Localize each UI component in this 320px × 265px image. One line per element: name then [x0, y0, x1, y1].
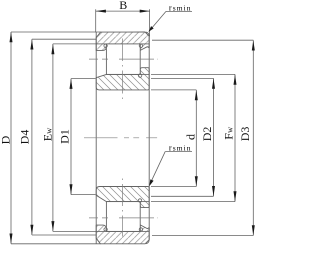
- outer ring bottom section: [96, 225, 149, 244]
- extension line D3 bottom: [152, 235, 253, 237]
- dimension line D1: [70, 79, 73, 195]
- extension line D4 bottom: [32, 234, 96, 236]
- extension line d top: [151, 89, 196, 91]
- svg-text:rsmin: rsmin: [169, 143, 192, 153]
- extension line D bottom: [11, 243, 100, 245]
- svg-text:B: B: [119, 0, 127, 12]
- svg-text:D: D: [0, 135, 13, 144]
- extension line Ew bottom: [53, 230, 96, 232]
- wire left face line of rings: [95, 32, 97, 244]
- relief groove top-left: [104, 44, 107, 47]
- chamfer arc bottom-right: [146, 240, 149, 244]
- dimension line D3: [252, 40, 255, 235]
- relief groove bottom-left: [104, 228, 107, 231]
- dimension line B: [96, 10, 150, 13]
- relief groove upper-right of bottom roller: [138, 199, 141, 202]
- leader rsmin mid: [150, 152, 192, 184]
- dimension line Fw: [234, 74, 237, 201]
- dimension line D4: [30, 39, 33, 235]
- svg-text:D2: D2: [200, 127, 214, 142]
- arrow rsmin top: [148, 26, 153, 32]
- extension line D top (OD extended left): [11, 31, 101, 33]
- dimension line Ew: [51, 44, 54, 232]
- centerline horizontal of bottom roller: [89, 217, 158, 219]
- svg-text:D4: D4: [17, 130, 31, 145]
- extension line Fw bottom: [151, 201, 235, 203]
- outer ring top section: [96, 32, 149, 50]
- relief groove lower-right of top roller: [138, 74, 141, 77]
- dimension line D2: [212, 78, 215, 196]
- wire raceway line across bottom-right lip: [140, 230, 149, 232]
- inner ring top section: [96, 68, 149, 90]
- extension line D3 top: [152, 39, 253, 41]
- extension line B right: [149, 9, 151, 36]
- wire raceway line across top-right lip: [140, 43, 149, 45]
- roller top section: [106, 44, 140, 75]
- centerline horizontal of top roller: [89, 58, 158, 60]
- wire Fw line across top rib: [140, 73, 149, 75]
- relief groove bottom-right: [139, 228, 142, 231]
- wire raceway line across top-left lip: [96, 43, 106, 45]
- extension line D4 top (groove line extended left): [32, 38, 96, 40]
- leader rsmin top: [150, 11, 192, 30]
- extension line D2 bottom: [151, 195, 214, 197]
- wire raceway line across bottom-left lip: [96, 230, 106, 232]
- centerline vertical of top roller: [122, 39, 124, 100]
- axis centerline: [84, 137, 158, 139]
- roller bottom section: [106, 202, 140, 232]
- svg-text:d: d: [184, 134, 198, 140]
- extension line D1 top: [71, 78, 96, 80]
- svg-text:D1: D1: [57, 129, 71, 144]
- inner ring bottom section: [96, 187, 149, 208]
- extension line d bottom: [151, 186, 196, 188]
- extension line Fw top: [151, 73, 235, 75]
- relief groove top-right: [139, 44, 142, 47]
- extension line D1 bottom: [71, 194, 96, 196]
- dimension line d: [195, 90, 198, 187]
- chamfer arc top-right: [146, 32, 149, 36]
- svg-text:D3: D3: [238, 127, 252, 142]
- svg-text:rsmin: rsmin: [169, 2, 192, 12]
- extension line Ew top: [53, 43, 96, 45]
- svg-text:Fw: Fw: [222, 126, 236, 140]
- arrow rsmin mid: [149, 179, 153, 186]
- wire Fw line across bottom rib: [140, 201, 149, 203]
- extension line B left: [95, 9, 97, 32]
- dimension line D: [10, 32, 13, 244]
- svg-text:Ew: Ew: [40, 127, 54, 141]
- centerline vertical of bottom roller: [122, 179, 124, 237]
- wire right face line of rings: [148, 36, 150, 240]
- extension line D2 top: [151, 77, 214, 79]
